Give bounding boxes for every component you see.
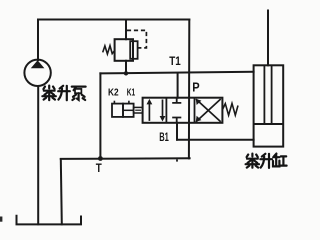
svg-text:P: P bbox=[192, 80, 199, 94]
wire relief valve bottom drop bbox=[125, 61, 127, 74]
node T junction dot bbox=[98, 156, 103, 161]
DV left block up arrow bbox=[148, 103, 150, 121]
cylinder C1 rod left line bbox=[263, 65, 265, 124]
cylinder C1 piston bbox=[254, 123, 284, 125]
wire B1 line to cylinder bbox=[177, 139, 254, 141]
svg-text:K2: K2 bbox=[108, 86, 119, 98]
scan speck below T line bbox=[176, 159, 178, 161]
wire pump suction bbox=[37, 86, 39, 224]
wire top rail bbox=[38, 19, 189, 21]
svg-text:T: T bbox=[96, 163, 102, 175]
char 升 bbox=[262, 154, 266, 157]
solenoid terminal tick K1 bbox=[128, 101, 130, 104]
char 举 bbox=[43, 86, 54, 90]
wire T return line bbox=[61, 157, 190, 160]
label 举升缸 (drawn strokes) bbox=[246, 154, 287, 168]
node relief-drain junction dot bbox=[124, 71, 128, 75]
wire working line to cylinder bbox=[100, 72, 253, 74]
char 泵 bbox=[72, 85, 86, 87]
wire tank branch vertical bbox=[99, 73, 101, 158]
wire return drop to tank bbox=[61, 159, 62, 224]
char 升 bbox=[60, 86, 64, 89]
svg-text:B1: B1 bbox=[159, 130, 169, 144]
relief valve V1 inner box bbox=[130, 41, 137, 59]
svg-text:K1: K1 bbox=[127, 86, 135, 98]
pump P1 outlet triangle bbox=[31, 60, 45, 68]
relief valve V1 main box bbox=[115, 39, 133, 61]
scan artifact left edge bbox=[0, 217, 2, 222]
wire B1 drop bbox=[176, 123, 178, 140]
solenoid connector stub bbox=[134, 107, 143, 113]
DV middle block blocked port top bbox=[172, 98, 181, 103]
solenoid K1 box bbox=[123, 104, 134, 117]
solenoid terminal tick K2 bbox=[113, 101, 115, 104]
cylinder C1 rod right line bbox=[271, 65, 273, 124]
label 举升泵 (drawn strokes) bbox=[42, 86, 85, 101]
solenoid K1 box midline bbox=[123, 109, 134, 111]
directional valve DV body bbox=[143, 98, 223, 123]
wire relief valve top drop bbox=[125, 20, 127, 40]
wire T1 drop bbox=[177, 73, 179, 97]
pump P1 circle bbox=[24, 60, 50, 86]
directional valve DV divider left bbox=[165, 98, 167, 123]
wire piston rod upper bbox=[267, 11, 269, 66]
svg-text:T1: T1 bbox=[169, 54, 181, 68]
wire pump outlet bbox=[37, 20, 39, 61]
wire P line through valve bbox=[188, 20, 190, 159]
DV return spring right bbox=[223, 103, 239, 115]
DV middle block blocked port bottom bbox=[172, 118, 181, 123]
DV left block down arrow bbox=[162, 100, 164, 118]
tank symbol bbox=[17, 215, 82, 225]
DV right block crossed arrows bbox=[196, 99, 221, 122]
relief valve V1 pilot dashed line bbox=[127, 30, 146, 48]
solenoid K2 box bbox=[112, 104, 123, 117]
directional valve DV divider right bbox=[194, 98, 196, 123]
relief valve V1 spring bbox=[103, 46, 115, 54]
char 缸 bbox=[274, 154, 276, 157]
cylinder C1 body bbox=[254, 65, 284, 146]
char 举 bbox=[247, 154, 258, 158]
